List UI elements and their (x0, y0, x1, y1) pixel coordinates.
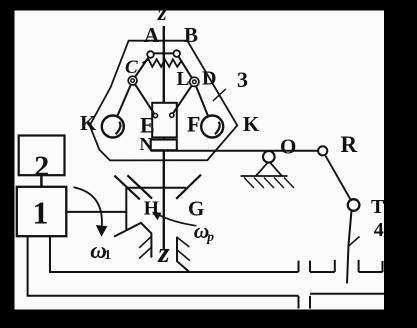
svg-text:B: B (184, 23, 198, 47)
svg-text:3: 3 (237, 67, 248, 92)
svg-text:G: G (188, 197, 204, 221)
svg-text:D: D (202, 68, 216, 90)
svg-text:C: C (125, 57, 138, 78)
svg-text:K: K (80, 111, 97, 135)
svg-text:z: z (157, 237, 170, 269)
svg-text:p: p (206, 229, 214, 244)
svg-text:1: 1 (33, 194, 49, 230)
svg-text:O: O (280, 135, 296, 159)
svg-text:1: 1 (104, 248, 111, 263)
svg-text:F: F (187, 111, 200, 136)
svg-text:T: T (371, 196, 385, 218)
svg-text:A: A (144, 23, 160, 47)
svg-text:K: K (243, 112, 260, 136)
svg-text:N: N (140, 134, 153, 154)
svg-text:L: L (177, 69, 190, 90)
svg-text:4: 4 (374, 219, 384, 241)
svg-text:z: z (157, 0, 167, 25)
svg-text:R: R (341, 132, 358, 157)
svg-text:2: 2 (34, 150, 49, 183)
svg-text:H: H (144, 199, 159, 220)
